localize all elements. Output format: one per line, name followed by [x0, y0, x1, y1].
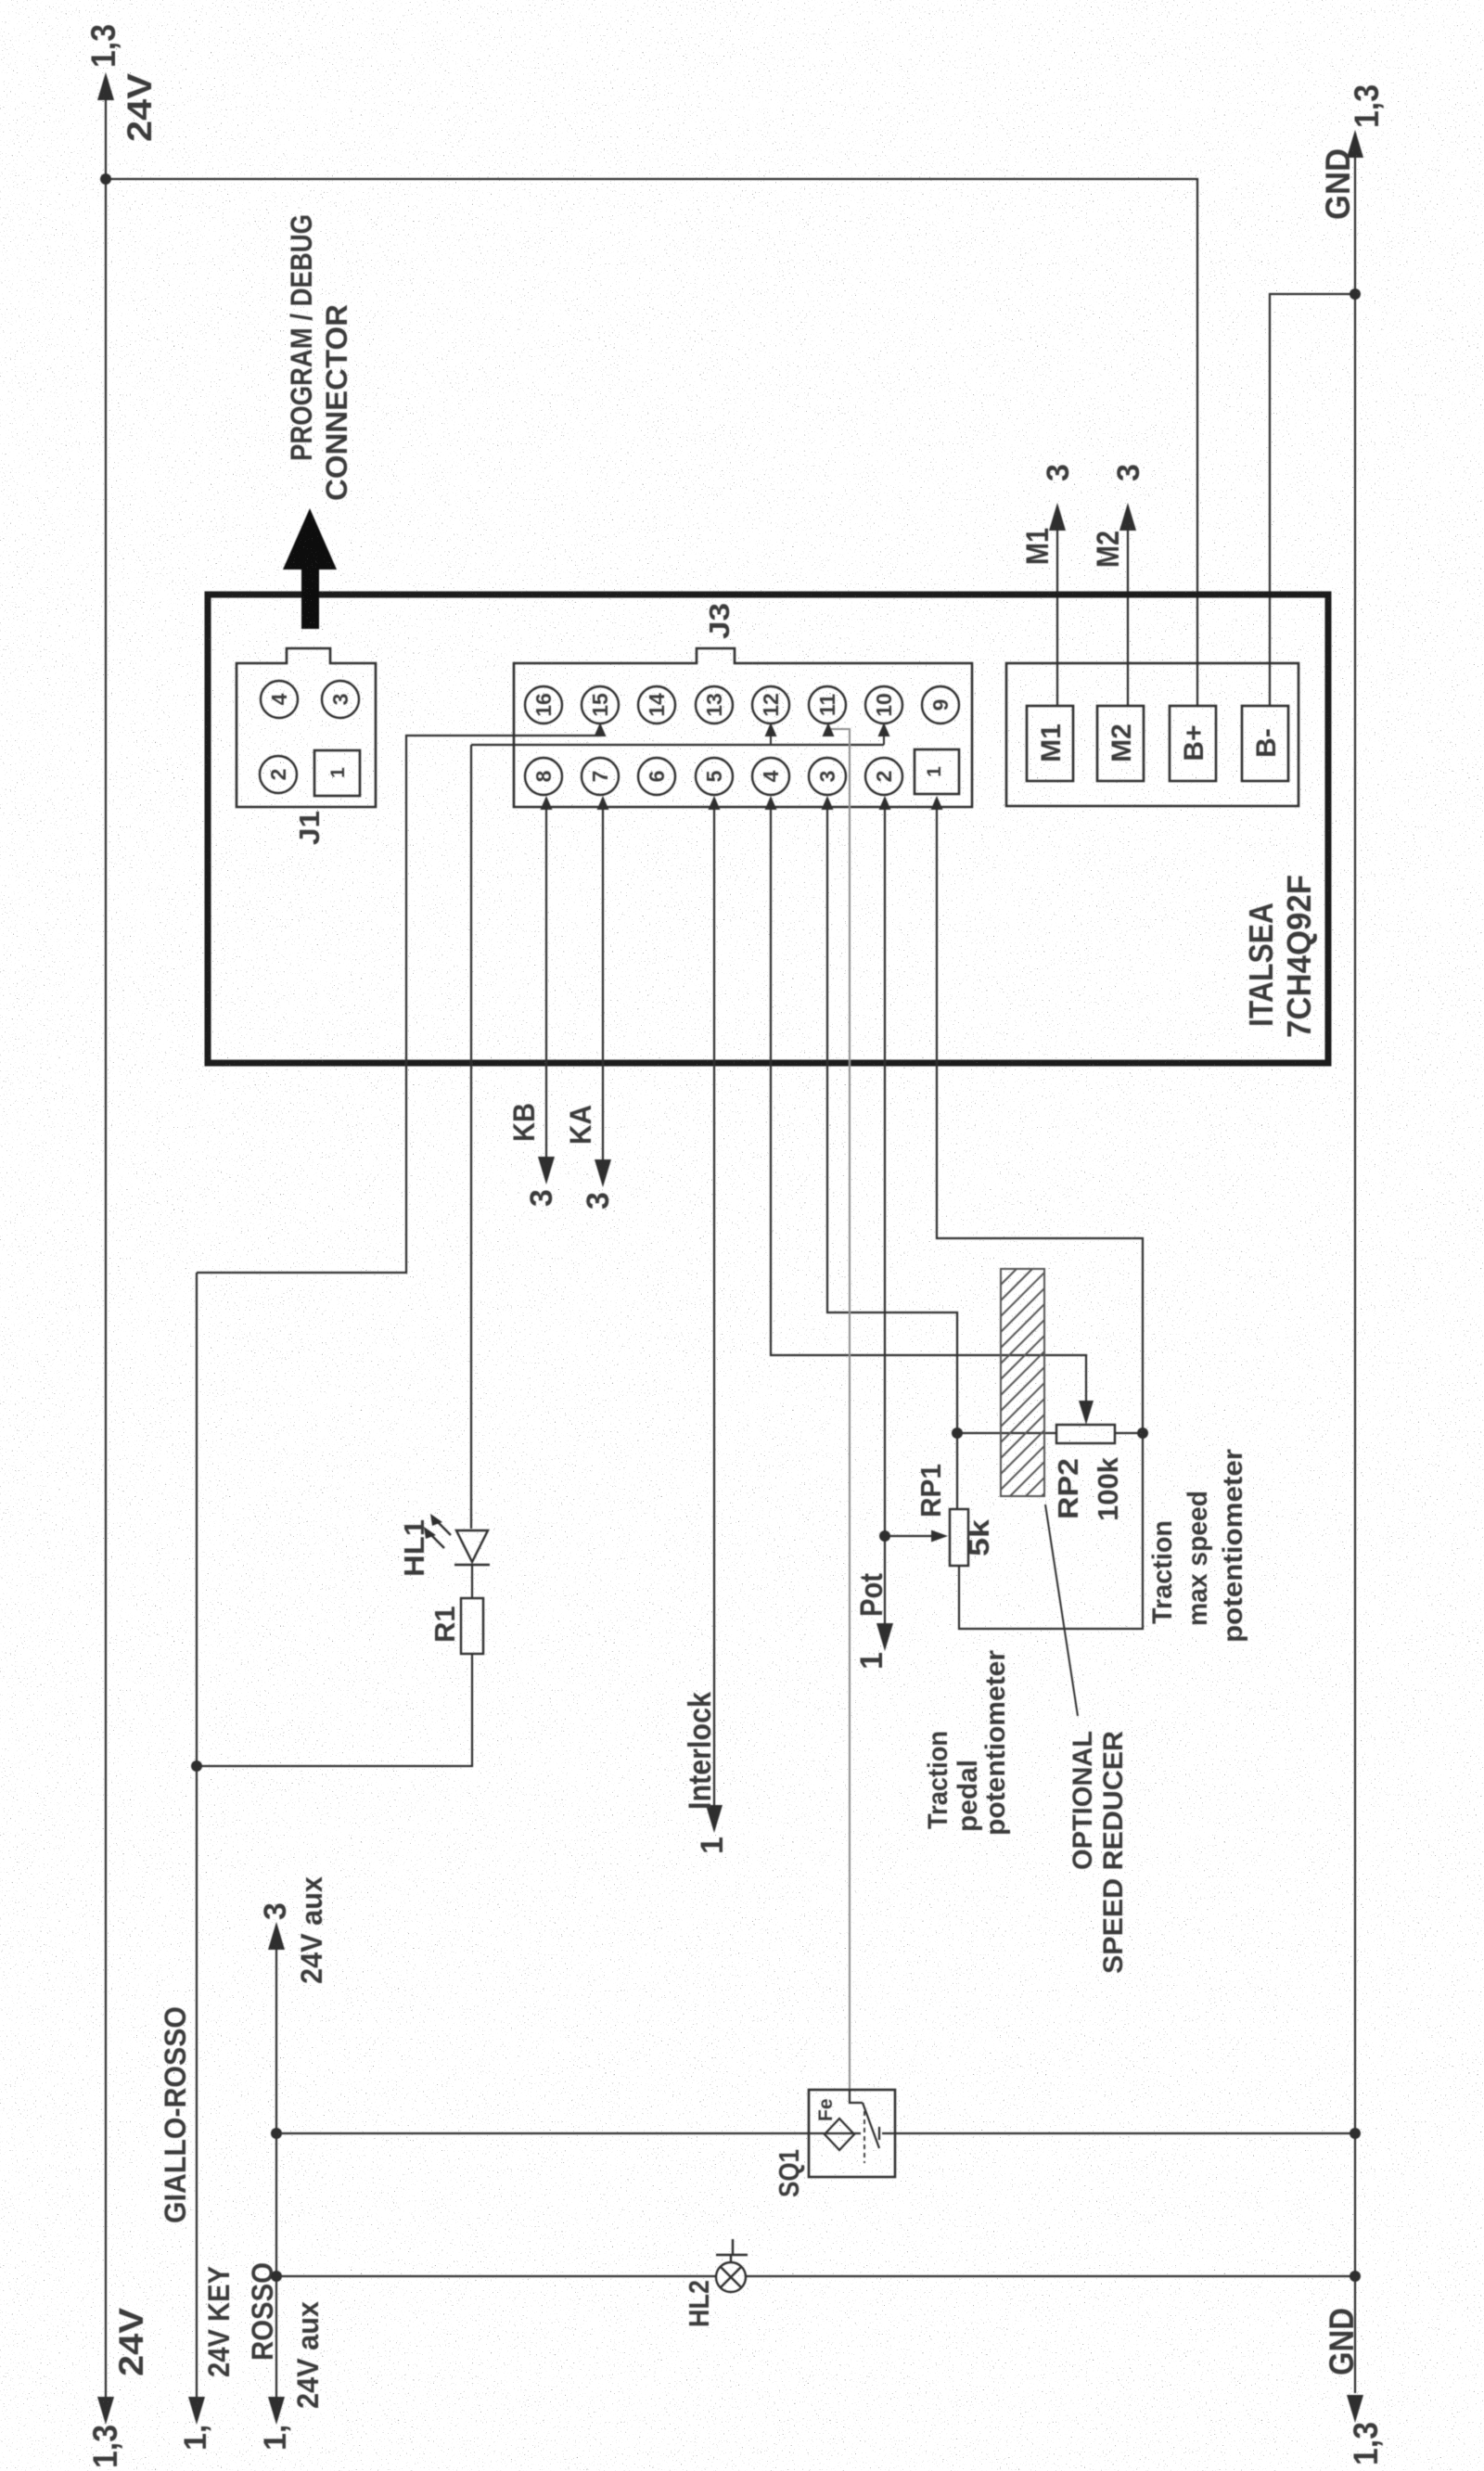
node 24V KEY bottom arrow to sheet 1 [188, 2397, 205, 2425]
pin8 connection arrow [541, 796, 553, 810]
program/debug thick arrow [283, 508, 337, 629]
J3 pin 3 [809, 758, 846, 795]
wire GND right rail [1354, 158, 1356, 2393]
junction SQ1 line / GND rail [1350, 2128, 1361, 2139]
wire J3 pin 8 (KB) [545, 810, 547, 1157]
wire 24V aux to HL2 [276, 2275, 716, 2277]
J1 pin 2 [260, 756, 297, 793]
J3 pin 15 [582, 686, 619, 723]
J3 pin 2 [865, 758, 902, 795]
J3 pin 4 [752, 758, 789, 795]
wire 24V aux vertical [275, 1950, 277, 2397]
LED HL1 [424, 1514, 490, 1565]
J3 pin 9 [922, 686, 959, 723]
pin7 connection arrow [597, 796, 609, 810]
wire 24V feed to B+ [106, 179, 1197, 706]
wire RP1 wiper branch [885, 1535, 933, 1537]
wire RP2 left track [957, 1432, 1056, 1434]
wire J3 pin 5 (Interlock) [713, 810, 715, 1805]
terminal M1 [1027, 706, 1073, 781]
junction RP2 left terminal [952, 1428, 963, 1439]
RP2 wiper arrow [1079, 1401, 1094, 1425]
wire J3 pin 1 to RP2 right and RP1 bottom [937, 810, 1143, 1629]
resistor R1 [461, 1598, 483, 1654]
RP1 wiper arrow [931, 1530, 948, 1543]
pin1 connection arrow [931, 796, 943, 810]
J3 pin 13 [696, 686, 733, 723]
J3 pin 12 [752, 686, 789, 723]
J3 pin 11 [809, 686, 846, 723]
wire M2 motor lead [1127, 531, 1129, 706]
wire HL2 to GND rail [746, 2275, 1355, 2277]
wire B- to GND rail [1270, 294, 1355, 706]
J3 pin 1 (square) [915, 749, 959, 794]
wire SQ1 to GND rail [895, 2132, 1355, 2134]
J1 pin 4 [261, 681, 298, 718]
node M1 arrow to sheet 3 [1049, 503, 1066, 531]
J3 pin 5 [696, 758, 733, 795]
wire LED to R1 [471, 1565, 473, 1598]
wire 24V aux to SQ1 [276, 2132, 809, 2134]
wire pin10 line down to HL1 [470, 745, 472, 1529]
junction B- / GND rail [1350, 288, 1361, 300]
node GND rail top arrow to sheet 1,3 [1347, 130, 1363, 158]
pin3 connection arrow [822, 796, 834, 810]
node M2 arrow to sheet 3 [1119, 503, 1136, 531]
wire from J3 pins 12/10 left [471, 744, 884, 746]
optional speed reducer hatched bar [1001, 1269, 1044, 1496]
wire M1 motor lead [1056, 531, 1058, 706]
connector J1 outline [237, 648, 376, 807]
node KB arrow to sheet 3 [538, 1157, 555, 1184]
junction R1 / 24V KEY line [191, 1760, 202, 1772]
terminal block outline [1006, 663, 1298, 806]
J3 pin 16 [525, 686, 562, 723]
J3 pin 8 [525, 758, 562, 795]
wire 24V KEY vertical (GIALLO-ROSSO) [196, 1273, 198, 2397]
connector J3 outline [514, 648, 972, 807]
node GND rail bottom arrow to sheet 1,3 [1347, 2395, 1363, 2423]
J3 pin 7 [582, 758, 619, 795]
pin2 connection arrow [879, 796, 891, 810]
terminal B- [1242, 706, 1288, 781]
terminal M2 [1097, 706, 1144, 781]
pin12 arrow stub [770, 736, 772, 745]
J3 pin 14 [638, 686, 675, 723]
controller ITALSEA 7CH4Q92F outline [208, 595, 1328, 1063]
wire from J3 pin 15 left and down [197, 736, 600, 1273]
indicator lamp HL2 [716, 2239, 748, 2292]
potentiometer RP2 (100k) [1056, 1425, 1115, 1443]
junction 24V aux / SQ1 line [271, 2128, 282, 2139]
wire J3 pin 4 to RP2 wiper [771, 810, 1086, 1401]
wire J3 pin 2 (Pot) [884, 810, 886, 1623]
pin10 arrow stub [883, 736, 885, 745]
node 24V aux bottom arrow to sheet 1 [268, 2397, 285, 2425]
J1 pin 1 (square) [314, 750, 360, 796]
terminal B+ [1170, 706, 1216, 781]
pin10 connection arrow [878, 723, 890, 736]
pin11 connection arrow [823, 723, 835, 736]
node 24V rail top arrow to sheet 1,3 [97, 72, 114, 100]
node 24V aux top arrow to sheet 3 [268, 1922, 285, 1950]
wire R1 down to 24V KEY line [197, 1654, 472, 1766]
leader line to OPTIONAL SPEED REDUCER [1045, 1504, 1078, 1716]
J3 pin 6 [638, 758, 675, 795]
node Interlock arrow to sheet 1 [706, 1805, 723, 1833]
pin5 connection arrow [709, 796, 721, 810]
potentiometer RP1 (5k) [950, 1509, 968, 1566]
pin4 connection arrow [765, 796, 777, 810]
junction 24V rail / feed [100, 173, 111, 185]
junction 24V aux / HL2 line [271, 2271, 282, 2282]
wire RP2 right track [1115, 1432, 1143, 1434]
pin15 connection arrow [595, 723, 607, 736]
J3 pin 10 [865, 686, 902, 723]
junction pot wiper branch [879, 1530, 890, 1542]
node Pot arrow to sheet 1 [876, 1623, 893, 1651]
wire J3 pin 3 to RP2 left and RP1 top [827, 810, 957, 1509]
key switch SQ1 [809, 2090, 895, 2177]
node 24V rail bottom arrow to sheet 1,3 [97, 2397, 114, 2425]
wire J3 pin 7 (KA) [602, 810, 604, 1159]
pin11 arrow stub [827, 729, 829, 736]
wire 24V left rail [105, 100, 107, 2397]
junction HL2 line / GND rail [1350, 2271, 1361, 2282]
wire J3 pin 11 to SQ1 (gray) [828, 729, 850, 2090]
node KA arrow to sheet 3 [595, 1159, 611, 1187]
pin12 connection arrow [765, 723, 777, 736]
J1 pin 3 [322, 681, 359, 718]
junction RP2 right terminal [1137, 1428, 1148, 1439]
